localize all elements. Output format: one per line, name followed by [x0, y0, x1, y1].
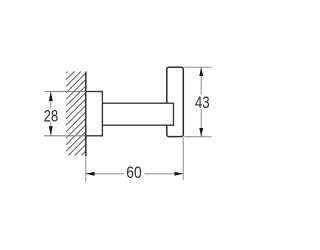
svg-text:28: 28 — [44, 108, 59, 126]
dim 60 arrow right — [175, 172, 184, 176]
wall face line — [85, 72, 87, 157]
dim 43 line upper segment — [200, 67, 202, 94]
dim 60 line right segment — [145, 173, 184, 175]
dim 60 arrow left — [86, 172, 95, 176]
hook face plate — [167, 67, 184, 136]
dim 28 extension line bottom — [44, 135, 86, 137]
wall extension line (60 dim, left) — [85, 156, 87, 181]
dim 43 line lower segment — [200, 109, 202, 137]
dim 43 extension line top — [184, 66, 211, 68]
dim 43 arrow down — [199, 128, 203, 137]
svg-text:60: 60 — [126, 164, 141, 182]
dim 28 extension line top — [45, 91, 86, 93]
wall mount block — [86, 92, 103, 136]
dim 28 arrow down — [49, 126, 53, 136]
dim 28 arrow up — [49, 92, 53, 102]
dim 60 line left segment — [86, 173, 124, 175]
wall hatching — [66, 72, 86, 156]
dim 43 extension line bottom — [184, 136, 211, 138]
dim 43 arrow up — [199, 67, 203, 76]
dim 28 line upper segment — [50, 92, 52, 109]
dim 28 line lower segment — [50, 122, 52, 136]
dim 60 extension line right — [182, 138, 184, 181]
svg-text:43: 43 — [195, 94, 210, 112]
arm — [102, 103, 173, 125]
